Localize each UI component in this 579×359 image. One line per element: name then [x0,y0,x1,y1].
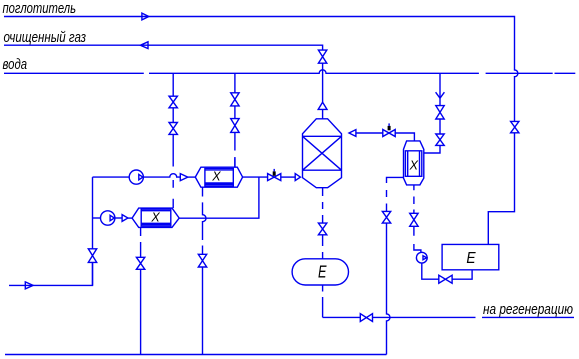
valve V4 [231,119,239,133]
control valve CV2 actuator blob [388,126,391,130]
valve V15 [198,254,206,267]
arrow A6 right into column [295,174,300,181]
wire valve V11 to vessel E2 bottom [452,270,472,279]
wire left riser x=92.5 [92,177,94,249]
valve V10 [410,213,418,226]
small column K2 inner jacket [405,151,421,177]
wire x=173 below valves dashed [172,134,174,208]
control valve CV2 stem [388,123,390,126]
pump P2 tick [110,215,114,220]
wire column right side to control valve CV2 [356,132,383,134]
arrow A4 right [122,215,128,222]
pump P2 [101,211,115,225]
arrow A1 right on L1 [142,13,149,20]
heat exchanger X2 shell [132,208,179,227]
svg-text:вода: вода [3,56,28,73]
wire water line L3 segment 1 [4,72,144,74]
valve V6 [436,134,444,145]
wire arrow to exchanger X2 [128,217,132,219]
wire junction drop from upper line to lower exchanger outlet [179,177,259,218]
wire water branch x=173 upper part [172,73,174,96]
wire x=140.6 to bottom header [140,269,142,354]
wire riser lower section [92,262,94,285]
heat exchanger X1 inner box and tube lines [205,168,233,186]
arrow A3 right on inlet [25,282,33,289]
heat exchanger X2 inner box and tube lines [141,209,171,226]
valve V13 horizontal on regeneration line [360,314,372,322]
valve V3 [231,93,239,106]
wire x=440 to small column right side [424,145,440,153]
absorber column K1 shell [303,119,342,188]
wire x=235 below valves dashed to exchanger top [234,132,236,167]
wire pump P2 outlet [115,217,122,219]
svg-text:E: E [466,250,475,267]
wire between valves x=173 [172,108,174,123]
control valve CV2 body [383,130,395,137]
wire exchanger X2 bottom drain dashed [140,227,142,257]
valve V8 gas riser [318,50,326,63]
wire between valves x=440 [439,119,441,134]
svg-text:поглотитель: поглотитель [3,0,77,17]
wire purified gas line L2 [4,45,323,50]
wire lower pump line from riser junction [93,217,101,219]
arrow A7 left into column right side [349,130,356,137]
wire bottom drain header [5,354,387,356]
wire between valves x=235 [234,106,236,119]
valve V1 [169,96,177,108]
wire water line L3 segment 2 with jump bump over gas riser [149,70,479,73]
wire exchanger X1 outlet to junction and control valve CV1 [243,176,268,178]
wire pump P3 outlet [422,263,439,279]
wire water branch x=440 [439,73,441,105]
arrow chevron down x=440 [436,92,445,98]
valve V2 [169,123,177,135]
wire CV2 to small column top [395,133,414,141]
pump P1 tick [139,174,143,179]
pump P1 [129,170,143,184]
absorber column K1 packing top line [303,135,342,137]
arrow A5 right [180,174,188,181]
valve V12 [318,223,326,235]
pump P3 [416,252,427,263]
pump P3 tick [423,256,427,260]
svg-text:X: X [150,211,160,225]
valve V5 [436,106,444,119]
wire exchanger X1 top stub [234,158,236,167]
wire absorbent feed line L1 with jump over water line [4,17,518,122]
wire regeneration line right [373,316,575,318]
wire arrow to exchanger X1 [188,176,196,178]
control valve CV1 body [268,174,281,181]
wire small column bottom outlet dashed [413,185,415,213]
wire water branch x=235 upper part [234,73,236,93]
wire column bottom to valve dashed [322,188,324,223]
absorber column K1 packing cross [303,136,342,170]
wire valve to pump P3 [414,226,421,252]
wire feed inlet line bottom left [9,262,93,285]
valve V7 on absorbent downline x=514.5 [511,121,519,132]
control valve CV1 actuator blob [273,171,276,175]
vessel E2 rectangle [442,244,499,269]
wire water line L3 segment 4 [555,72,576,74]
valve V9 [382,211,390,223]
wire water line L3 segment 3 [486,72,553,74]
svg-text:на регенерацию: на регенерацию [483,301,573,318]
svg-text:очищенный газ: очищенный газ [4,29,87,46]
arrow A2 left on L2 [140,42,148,49]
svg-text:X: X [409,158,419,172]
valve V14 [88,249,96,263]
wire pump P1 outlet with jump bump over branch x=173 [143,174,180,177]
wire gas riser from column to L2 [322,63,324,119]
vessel E1 capsule [292,259,348,285]
wire exchanger X1 bottom drain dashed with jump bump [203,187,207,254]
wire capsule E1 bottom to regeneration line [323,285,361,317]
wire x=202.5 to bottom header [202,267,204,355]
heat exchanger X1 shell [195,167,242,187]
wire absorbent downline to vessel E2 [488,133,514,245]
wire small column left outlet [387,177,404,211]
svg-text:X: X [211,170,221,184]
control valve CV1 stem [273,169,275,172]
valve V11 horizontal [439,275,452,283]
small column K2 shell [404,141,424,185]
wire valve to capsule E1 dashed [322,235,324,259]
valve V16 [136,257,144,269]
svg-text:E: E [318,262,327,282]
arrow A8 up into gas riser [318,102,327,109]
wire x=386.5 down with jump bump over regeneration line [387,223,391,354]
absorber column K1 packing bottom line [303,169,342,171]
wire CV1 to column arrow [281,176,295,178]
wire upper pump line from riser to pump P1 [93,176,130,178]
